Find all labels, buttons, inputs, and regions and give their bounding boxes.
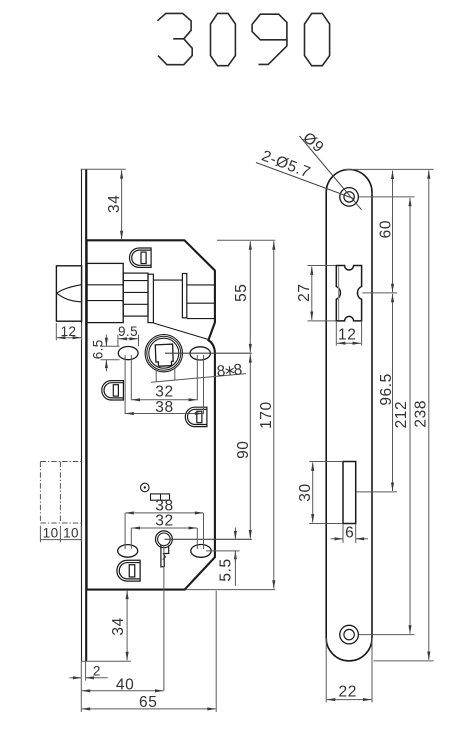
svg-text:22: 22 — [338, 684, 356, 701]
svg-text:12: 12 — [61, 324, 77, 339]
latch bevel upper curve — [57, 285, 82, 294]
dim 90 — [249, 354, 251, 538]
dim 40 — [81, 545, 164, 712]
handle screw slot top right — [190, 347, 210, 360]
dim 12 plate — [336, 322, 361, 346]
guide bar 2 — [182, 274, 186, 318]
dim 27 — [308, 266, 336, 321]
follower center extension — [165, 352, 252, 354]
svg-text:10: 10 — [63, 526, 79, 541]
faceplate strip inner edge — [85, 169, 87, 661]
mounting clip right middle — [185, 407, 207, 426]
dim 238 — [374, 170, 434, 661]
dim 170 — [273, 241, 275, 588]
latch cutout with notches — [336, 266, 361, 321]
dim 38 top — [125, 355, 203, 414]
svg-text:12: 12 — [338, 327, 356, 344]
svg-text:6.5: 6.5 — [91, 339, 106, 359]
dim 212 — [359, 197, 415, 635]
svg-text:34: 34 — [110, 617, 127, 635]
svg-text:2: 2 — [93, 664, 101, 679]
dim 34 bottom — [81, 591, 131, 662]
follower rings — [145, 335, 182, 372]
link line — [153, 279, 182, 281]
dim 12 latch — [56, 323, 81, 340]
dim 34 top — [81, 169, 126, 239]
svg-text:40: 40 — [116, 676, 134, 693]
svg-text:8: 8 — [233, 361, 244, 379]
mounting clip left middle — [102, 381, 124, 400]
case bottom extension — [186, 589, 275, 591]
svg-text:10: 10 — [43, 526, 59, 541]
dim 30 — [309, 462, 342, 524]
dim 65 — [82, 591, 216, 712]
8x8 leader — [151, 369, 246, 383]
handle screw slot bottom right — [191, 545, 211, 558]
dim 32 top — [131, 355, 197, 400]
svg-text:238: 238 — [412, 400, 429, 428]
guide bar 1 — [148, 274, 153, 322]
faceplate front view outline — [326, 170, 372, 661]
latch cutout inner shade line — [338, 267, 340, 321]
dim 10 10 — [40, 526, 81, 542]
dim 9.5 — [118, 335, 139, 346]
svg-text:6: 6 — [345, 525, 354, 542]
title 3090 digit 0 second — [305, 13, 330, 65]
svg-text:65: 65 — [139, 694, 157, 711]
dim 6.5 — [101, 335, 120, 372]
svg-text:5.5: 5.5 — [217, 558, 234, 581]
deadbolt cutout — [343, 462, 356, 524]
latch bevel lower curve — [57, 293, 82, 302]
case top extension — [217, 239, 275, 241]
dim 38 bottom — [125, 513, 203, 549]
mounting clip bottom — [117, 560, 140, 581]
svg-text:32: 32 — [155, 383, 173, 400]
svg-text:30: 30 — [297, 483, 314, 501]
dim 2 — [70, 661, 108, 680]
pivot small circle — [141, 483, 150, 492]
handle screw slot bottom left — [118, 545, 138, 558]
top screw hole — [340, 188, 359, 207]
keyhole center extension — [165, 538, 252, 540]
follower square hole 8x8 — [155, 344, 173, 366]
dim 22 — [326, 638, 372, 702]
dim 60 — [345, 169, 434, 292]
svg-text:32: 32 — [155, 512, 173, 529]
title 3090 digit 3 — [157, 13, 329, 65]
dim 5.5 — [234, 528, 236, 587]
small latch part — [151, 494, 170, 500]
lever diagonal — [153, 323, 208, 340]
latch body — [87, 263, 123, 322]
dim 96.5 — [356, 293, 397, 492]
faceplate strip outer edge (side view) — [81, 169, 83, 661]
keyhole slot — [161, 545, 169, 567]
keyhole circle — [156, 531, 173, 548]
lock case outline — [87, 240, 215, 589]
bottom slots center extension — [206, 550, 240, 552]
handle screw slot top left — [118, 347, 138, 360]
dim 6 — [331, 524, 368, 543]
svg-text:9.5: 9.5 — [118, 324, 138, 339]
svg-text:55: 55 — [233, 283, 250, 301]
svg-text:27: 27 — [296, 283, 313, 301]
svg-text:170: 170 — [258, 401, 275, 429]
latch spring stem — [123, 273, 148, 316]
dim 55 — [249, 241, 251, 352]
dim 32 bottom — [131, 528, 197, 549]
svg-text:212: 212 — [393, 401, 410, 429]
svg-text:60: 60 — [378, 220, 395, 238]
svg-text:90: 90 — [235, 440, 252, 458]
svg-text:8: 8 — [216, 363, 227, 381]
text 8*8 — [216, 361, 244, 380]
leader line dia9 — [300, 136, 362, 210]
svg-text:2-Ø5.7: 2-Ø5.7 — [259, 147, 313, 181]
title 3090 digit 9 — [252, 14, 287, 40]
spindle lines to edge — [187, 284, 214, 286]
svg-text:38: 38 — [155, 399, 173, 416]
svg-text:Ø9: Ø9 — [299, 129, 327, 156]
svg-text:34: 34 — [106, 195, 123, 213]
title 3090 digit 0 first — [211, 13, 236, 65]
deadbolt thrown phantom box — [40, 462, 81, 524]
bottom screw hole — [340, 625, 359, 644]
leader line 2-dia5.7 — [256, 163, 354, 199]
mounting clip top — [130, 248, 152, 267]
latch bolt head — [56, 266, 81, 321]
